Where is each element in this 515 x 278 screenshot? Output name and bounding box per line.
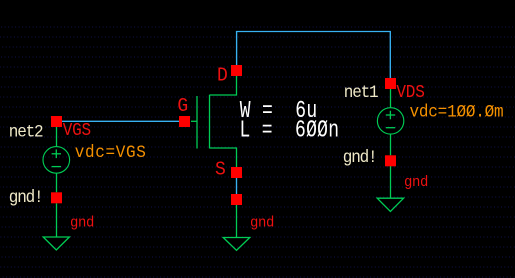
- svg-text:D: D: [217, 64, 228, 87]
- svg-text:G: G: [177, 94, 188, 117]
- ground symbol left: [43, 203, 69, 250]
- wire top horizontal: [236, 31, 391, 33]
- voltage source V0 (vdc=VGS): [43, 127, 70, 193]
- pin gnd! right: [385, 155, 396, 166]
- svg-text:gnd: gnd: [250, 215, 274, 231]
- pin VDS (net1 square): [385, 78, 396, 89]
- pin gnd! left: [51, 192, 62, 203]
- svg-text:L = 6ØØn: L = 6ØØn: [240, 117, 340, 144]
- svg-text:gnd!: gnd!: [343, 148, 377, 168]
- wire net2: VGS source top to gate: [62, 120, 179, 122]
- pin G: [179, 116, 190, 127]
- pin VGS (net2 square): [51, 116, 62, 127]
- pin S: [231, 167, 242, 178]
- pin gnd under S: [231, 194, 242, 205]
- ground symbol middle: [223, 205, 250, 250]
- wire source to gnd pin: [236, 178, 238, 194]
- svg-text:vdc=VGS: vdc=VGS: [75, 143, 147, 163]
- ground symbol right: [377, 166, 403, 212]
- wire drain to net1 top: vertical up from D: [236, 32, 238, 66]
- voltage source V1 (vdc=100.0m): [377, 89, 403, 155]
- svg-text:gnd: gnd: [404, 175, 428, 191]
- svg-text:VDS: VDS: [396, 83, 424, 103]
- svg-text:S: S: [215, 158, 226, 181]
- svg-text:gnd!: gnd!: [9, 188, 43, 208]
- svg-text:net2: net2: [9, 123, 43, 143]
- transistor M0 (nmos): [191, 76, 237, 167]
- svg-text:gnd: gnd: [70, 215, 94, 231]
- svg-text:net1: net1: [344, 83, 379, 103]
- wire right vertical down to VDS pin: [389, 32, 391, 79]
- pin D: [231, 65, 242, 76]
- svg-text:VGS: VGS: [63, 121, 91, 141]
- svg-text:vdc=1ØØ.Øm: vdc=1ØØ.Øm: [410, 103, 504, 123]
